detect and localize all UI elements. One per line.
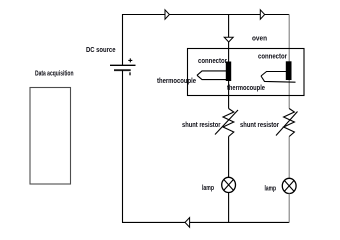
- wire: right branch vertical (x=289, gray) from top corner to resistor: [288, 15, 290, 109]
- data acquisition box: [30, 88, 71, 185]
- svg-text:shunt resistor: shunt resistor: [240, 122, 279, 129]
- svg-text:lamp: lamp: [265, 185, 277, 192]
- svg-text:Data acquisition: Data acquisition: [35, 70, 74, 77]
- wire: top horizontal (battery + to right branch corner): [122, 14, 289, 16]
- svg-text:thermocouple: thermocouple: [157, 78, 196, 85]
- wire: lamp2 to bottom wire (gray): [288, 194, 290, 223]
- wire: lamp1 to bottom wire: [228, 193, 230, 223]
- connector block (right): [286, 61, 292, 80]
- wire: right branch resistor to lamp2 (gray): [288, 137, 290, 179]
- arrow A1 on top wire (pointing right): [165, 10, 169, 19]
- wire: middle branch vertical (x=228.6) from top wire to resistor: [228, 15, 230, 109]
- lamp L1 circle: [222, 177, 236, 192]
- lamp L1 cross: [224, 180, 234, 191]
- thermocouple probe (right): [261, 72, 296, 83]
- svg-text:connector: connector: [258, 53, 287, 60]
- battery minus tick: [129, 72, 131, 75]
- shunt resistor R1 slash: [215, 110, 238, 135]
- arrow A3 on middle branch (pointing down): [224, 37, 233, 42]
- battery DC source: negative plate: [114, 69, 131, 71]
- wire: bottom horizontal: [122, 221, 289, 223]
- battery plus sign: [128, 58, 132, 62]
- shunt resistor R2 slash: [276, 112, 298, 136]
- battery DC source: positive plate: [110, 64, 136, 66]
- wire: middle branch resistor to lamp1: [228, 137, 230, 178]
- connector block (left): [226, 62, 231, 82]
- oven box: [188, 49, 305, 96]
- arrow A2 on top wire (pointing right): [260, 10, 264, 19]
- shunt resistor R2 zigzag: [284, 109, 295, 137]
- wire: left vertical from battery - plate down to bottom wire: [122, 70, 124, 222]
- arrow A4 on bottom wire (pointing left): [185, 218, 190, 228]
- thermocouple probe (left): [197, 71, 226, 80]
- svg-text:thermocouple: thermocouple: [227, 85, 265, 92]
- svg-text:DC source: DC source: [86, 47, 116, 54]
- shunt resistor R1 zigzag: [223, 109, 234, 137]
- lamp L2 circle: [282, 178, 296, 193]
- svg-text:oven: oven: [252, 35, 267, 42]
- wire: left vertical from top wire down to battery + plate: [122, 14, 124, 65]
- lamp L2 cross: [284, 181, 294, 192]
- svg-text:connector: connector: [198, 58, 227, 65]
- svg-text:lamp: lamp: [202, 185, 214, 192]
- svg-text:shunt resistor: shunt resistor: [182, 122, 221, 129]
